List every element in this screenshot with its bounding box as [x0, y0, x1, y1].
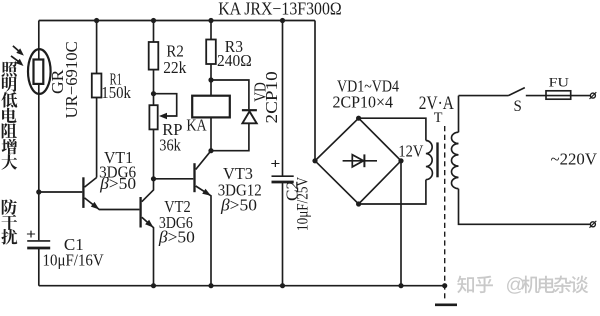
svg-text:12V: 12V [398, 141, 424, 160]
svg-text:β>50: β>50 [99, 174, 136, 193]
svg-text:FU: FU [549, 74, 570, 89]
svg-text:β>50: β>50 [158, 228, 195, 247]
svg-text:10μF/16V: 10μF/16V [43, 251, 105, 270]
svg-text:S: S [514, 98, 522, 115]
svg-text:2CP10: 2CP10 [262, 71, 281, 123]
svg-text:36k: 36k [159, 135, 181, 154]
svg-text:22k: 22k [163, 58, 187, 77]
svg-text:150k: 150k [101, 83, 131, 102]
svg-text:10μF/25V: 10μF/25V [295, 176, 312, 231]
svg-text:T: T [434, 110, 443, 126]
svg-text:UR−6910C: UR−6910C [62, 41, 81, 118]
svg-text:β>50: β>50 [220, 196, 257, 215]
svg-text:KA: KA [186, 116, 207, 135]
svg-text:+: + [270, 157, 280, 173]
svg-text:+: + [26, 227, 36, 243]
svg-text:240Ω: 240Ω [217, 51, 252, 70]
svg-text:KA JRX−13F300Ω: KA JRX−13F300Ω [218, 0, 342, 18]
svg-text:2CP10×4: 2CP10×4 [333, 93, 394, 112]
svg-text:@: @ [506, 274, 526, 296]
svg-text:~220V: ~220V [551, 150, 598, 169]
